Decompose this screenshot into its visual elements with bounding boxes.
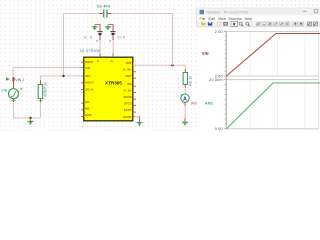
node DRV junction — [171, 64, 173, 66]
wire RG bottom to ammeter — [184, 85, 186, 89]
wire V+ battery to IC — [112, 35, 114, 40]
U1 right pin labels — [123, 61, 132, 119]
resistor RG body — [183, 73, 187, 85]
svg-text:V+: V+ — [110, 59, 114, 63]
source VIN circle — [9, 89, 19, 99]
plot1 gridline bottom — [226, 75, 319, 77]
node SET junction — [62, 75, 64, 77]
wire left vertical from top rail to SET node — [63, 14, 65, 77]
svg-text:A: A — [183, 97, 187, 103]
svg-text:EFCM: EFCM — [124, 95, 133, 99]
window icon — [200, 10, 204, 14]
trace AM1 green — [226, 83, 320, 129]
axis labels — [209, 30, 223, 131]
wire top rail right segment — [111, 13, 173, 15]
toolbar icon save — [208, 22, 212, 26]
wire DRV corner down — [184, 65, 186, 69]
plot right border — [318, 32, 320, 129]
window border left — [196, 8, 198, 27]
svg-text:Process: Process — [229, 17, 242, 21]
battery V- plus mark — [96, 40, 98, 42]
wire RSET top — [40, 76, 42, 81]
svg-text:U1 XTR305: U1 XTR305 — [80, 49, 100, 53]
wire top rail cap right stub — [108, 13, 112, 15]
svg-text:IMON: IMON — [85, 60, 92, 64]
svg-text:IN2: IN2 — [127, 82, 132, 86]
toolbar icon zoom red — [239, 22, 242, 25]
wire V- battery to IC — [99, 35, 101, 40]
ground DGND — [139, 121, 141, 126]
axis minor ticks plot2 — [224, 80, 226, 129]
svg-text:EFOT: EFOT — [124, 108, 132, 112]
svg-text:View: View — [218, 17, 226, 21]
wire DRV to load — [133, 64, 186, 66]
svg-text:OD_N: OD_N — [85, 87, 93, 91]
axis vertical — [225, 32, 227, 129]
trace VIN red — [226, 34, 320, 77]
window minimize — [303, 10, 306, 12]
toolbar icon zoom blue — [246, 22, 249, 25]
svg-text:IAOUT: IAOUT — [85, 81, 94, 85]
wire SET horizontal — [41, 75, 84, 77]
wire top rail left segment — [64, 13, 100, 15]
window body — [197, 8, 320, 131]
toolbar button cursor (pressed) — [231, 21, 238, 26]
ground for V+ battery — [107, 25, 109, 30]
toolbar icon export — [223, 22, 227, 26]
svg-text:IA_IN-: IA_IN- — [123, 89, 131, 93]
wire into source top — [13, 81, 15, 89]
battery V+ plus mark — [109, 40, 111, 42]
svg-text:VIN: VIN — [1, 89, 7, 93]
terminal mark RSET bottom — [39, 100, 43, 102]
toolbar — [197, 21, 320, 27]
axis minor ticks plot1 — [224, 32, 226, 77]
node bottom ground junction — [29, 117, 31, 119]
svg-text:Help: Help — [245, 17, 253, 21]
toolbar icon print — [217, 22, 221, 26]
wire DGND — [133, 116, 135, 118]
svg-text:M2: M2 — [85, 107, 89, 111]
svg-text:RGT: RGT — [126, 74, 132, 78]
wire VIN column to IN pin — [13, 67, 84, 69]
input arrow VIN 1 — [6, 77, 10, 80]
svg-text:GND: GND — [85, 113, 91, 117]
menu bar — [197, 16, 320, 22]
toolbar grey icons group 1 — [256, 22, 289, 26]
svg-text:V-: V- — [97, 59, 100, 63]
wire ground to V- battery top — [95, 24, 101, 26]
toolbar icon curves pair — [307, 22, 317, 26]
plot1 gridline top — [226, 31, 319, 33]
toolbar icon red/blue markers — [293, 22, 298, 26]
wire ammeter bottom — [184, 103, 186, 106]
toolbar icon open — [201, 23, 206, 26]
U1 left pin stubs — [81, 62, 84, 116]
wire bottom rail — [14, 117, 41, 119]
svg-text:SET: SET — [85, 74, 91, 78]
schematic background — [0, 0, 320, 131]
wire top rail down to DRV node — [172, 14, 174, 66]
source VIN waveform glyph — [11, 91, 16, 96]
plot vertical gridlines — [250, 32, 305, 129]
svg-text:Edit: Edit — [209, 17, 215, 21]
svg-text:2.00: 2.00 — [215, 30, 223, 34]
plot2 gridline top — [226, 79, 319, 81]
svg-text:XTR305: XTR305 — [105, 80, 122, 85]
svg-text:DGND: DGND — [123, 115, 131, 119]
svg-text:RSET 1k: RSET 1k — [44, 82, 48, 97]
U1 left pin labels — [85, 60, 94, 117]
svg-text:20.00m: 20.00m — [209, 78, 223, 82]
ammeter AM1 arrow tick — [181, 94, 183, 96]
svg-text:V+ 5: V+ 5 — [117, 35, 125, 39]
svg-text:IA_IN+: IA_IN+ — [123, 68, 132, 72]
ground GND1 bottom-left — [30, 118, 32, 120]
wire top rail cap left stub — [100, 13, 104, 15]
ammeter AM1 side ticks — [180, 98, 190, 104]
plot2 gridline bottom — [226, 128, 319, 130]
svg-text:EFLD: EFLD — [124, 102, 131, 106]
window maximize — [314, 9, 318, 13]
wire ground to V+ battery top — [108, 24, 114, 26]
node VIN tap pin mark — [12, 77, 14, 81]
ground below AM1 — [184, 121, 186, 126]
battery V- plates — [97, 31, 102, 33]
wire source bottom — [13, 99, 15, 102]
svg-text:V- -5: V- -5 — [84, 35, 92, 39]
resistor RSET body — [38, 85, 43, 99]
svg-text:VIN: VIN — [202, 51, 209, 56]
op-amp U1 XTR305 body — [84, 57, 133, 121]
svg-text:File: File — [200, 17, 206, 21]
svg-text:VIN: VIN — [85, 66, 90, 70]
U1 top pin stubs — [100, 55, 113, 57]
source VIN plus mark — [20, 88, 22, 90]
svg-text:VIN 1: VIN 1 — [15, 78, 24, 82]
capacitor C1 Cc plates — [104, 10, 107, 18]
svg-text:Cc 47n: Cc 47n — [97, 3, 111, 8]
svg-text:M1: M1 — [85, 100, 89, 104]
U1 right pin stubs — [133, 65, 136, 112]
ground for V- battery — [94, 25, 96, 30]
terminal mark source bottom — [12, 100, 16, 102]
svg-text:RG 1k: RG 1k — [188, 76, 192, 86]
svg-text:DRV: DRV — [126, 61, 132, 65]
ammeter AM1 circle — [181, 94, 189, 102]
svg-text:0.00: 0.00 — [215, 127, 223, 131]
wire RSET bottom — [40, 99, 42, 103]
svg-text:AM1: AM1 — [205, 101, 214, 106]
svg-text:Noname - TR result:XTR3: Noname - TR result:XTR3 — [207, 11, 248, 15]
battery V+ plates — [110, 31, 115, 33]
